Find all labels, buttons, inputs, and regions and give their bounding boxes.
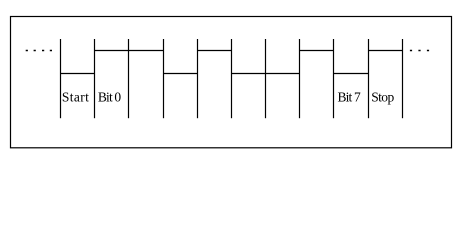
bit3 high segment bbox=[198, 50, 232, 52]
bit cell boundary stop trailing edge bbox=[402, 39, 404, 118]
bit cell boundary bit7/stop bbox=[368, 39, 370, 118]
svg-text:Bit 7: Bit 7 bbox=[338, 89, 361, 104]
bit cell boundary bit4/bit5 bbox=[265, 39, 267, 118]
bit cell boundary start/bit0 bbox=[94, 39, 96, 118]
svg-text:Bit 0: Bit 0 bbox=[98, 89, 121, 104]
bit cell boundary bit1/bit2 bbox=[163, 39, 165, 118]
frame border bbox=[11, 17, 452, 148]
idle line left (dashed, mark level) bbox=[26, 50, 52, 52]
start bit low segment bbox=[61, 73, 95, 75]
svg-text:Start: Start bbox=[62, 89, 89, 104]
bit0-bit1 high segment bbox=[95, 50, 164, 52]
bit cell boundary bit6/bit7 bbox=[333, 39, 335, 118]
svg-text:Stop: Stop bbox=[371, 89, 394, 104]
bit4-bit5 low segment bbox=[232, 73, 300, 75]
bit6 high segment bbox=[300, 50, 334, 52]
bit7 low segment bbox=[334, 73, 369, 75]
bit cell boundary bit2/bit3 bbox=[197, 39, 199, 118]
bit cell boundary bit3/bit4 bbox=[231, 39, 233, 118]
stop bit high segment bbox=[369, 50, 403, 52]
bit cell boundary bit0/bit1 bbox=[128, 39, 130, 118]
bit2 low segment bbox=[164, 73, 198, 75]
idle line right (dashed, mark level) bbox=[410, 50, 429, 52]
bit cell boundary at start-bit leading edge bbox=[60, 39, 62, 118]
bit cell boundary bit5/bit6 bbox=[299, 39, 301, 118]
